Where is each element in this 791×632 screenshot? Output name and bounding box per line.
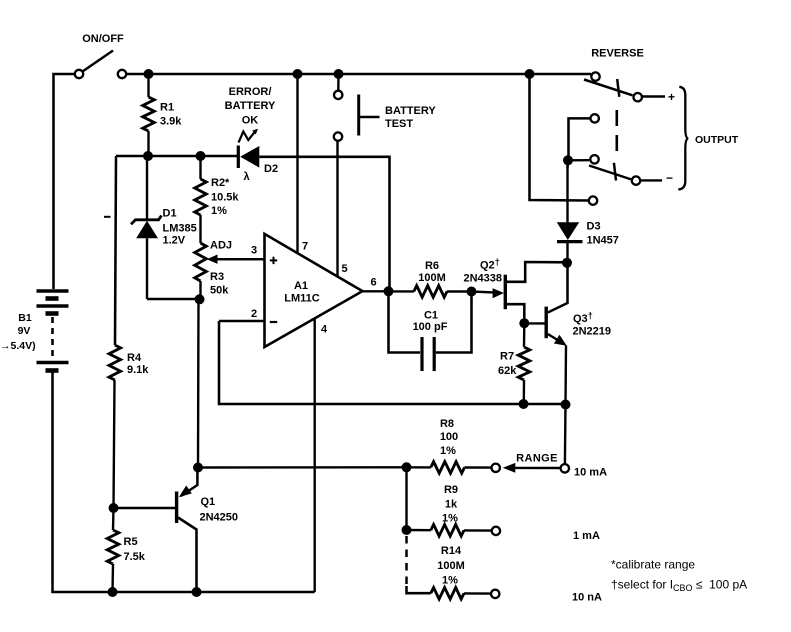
svg-text:6: 6 bbox=[370, 277, 376, 289]
zener D1 bbox=[146, 156, 148, 220]
pole2 upper terminal bbox=[591, 114, 599, 122]
svg-text:100M: 100M bbox=[418, 272, 446, 284]
capacitor C1 left wire bbox=[389, 291, 421, 352]
svg-text:1%: 1% bbox=[440, 445, 456, 457]
svg-text:ERROR/: ERROR/ bbox=[229, 86, 272, 98]
node reverse pole2 bbox=[563, 155, 573, 165]
transistor Q1 base bar bbox=[175, 492, 178, 524]
svg-text:Q1: Q1 bbox=[201, 496, 216, 508]
svg-text:100 pF: 100 pF bbox=[413, 321, 448, 333]
R8 terminal bbox=[492, 464, 500, 472]
wire D1 bottom to R3 node bbox=[147, 298, 199, 300]
pole2 common terminal bbox=[590, 155, 598, 163]
svg-text:ON/OFF: ON/OFF bbox=[82, 33, 124, 45]
pole2 common wire bbox=[568, 159, 589, 162]
LED cathode rail bbox=[116, 155, 237, 158]
svg-text:9V: 9V bbox=[18, 325, 31, 337]
node D3 bottom bbox=[562, 258, 572, 268]
svg-text:B1: B1 bbox=[18, 312, 32, 324]
pole1 output wire bbox=[642, 95, 665, 97]
resistor R1 bbox=[147, 74, 149, 97]
R14 terminal bbox=[491, 590, 499, 598]
dashed wire R9 to R14 bbox=[405, 536, 408, 586]
pole2 output wire bbox=[640, 179, 662, 181]
svg-text:C1: C1 bbox=[424, 310, 438, 322]
wire D3 anode bbox=[566, 160, 569, 168]
resistor R14 bbox=[407, 586, 431, 593]
LED D2 cathode bar bbox=[237, 146, 240, 169]
pin 7 wire bbox=[296, 74, 298, 253]
pole1 arm bbox=[584, 80, 633, 96]
node Q1 emitter junction bbox=[193, 463, 203, 473]
capacitor C1 right wire bbox=[436, 292, 472, 353]
switch S1 arm bbox=[83, 51, 114, 72]
svg-text:62k: 62k bbox=[498, 365, 517, 377]
JFET Q2 channel bar bbox=[504, 275, 507, 310]
battery test actuator bbox=[357, 95, 360, 136]
svg-text:BATTERY: BATTERY bbox=[225, 100, 276, 112]
svg-text:Q3†: Q3† bbox=[573, 311, 593, 326]
potentiometer R3 bbox=[195, 243, 207, 281]
pole2 throw terminal bbox=[632, 176, 640, 184]
battery test upper terminal bbox=[334, 91, 342, 99]
wire R4 to Q1 base node bbox=[114, 380, 115, 508]
node battery-test branch bbox=[334, 69, 344, 79]
svg-text:D3: D3 bbox=[587, 221, 601, 233]
output brace bbox=[678, 87, 688, 190]
node reverse branch bbox=[525, 69, 535, 79]
svg-text:LM385: LM385 bbox=[163, 223, 197, 235]
svg-text:3: 3 bbox=[251, 245, 257, 257]
Q1 base wire bbox=[114, 507, 177, 509]
svg-text:D1: D1 bbox=[163, 208, 177, 220]
svg-text:REVERSE: REVERSE bbox=[591, 48, 644, 60]
Q2 source lead bbox=[505, 304, 524, 323]
Q3 base wire bbox=[524, 322, 546, 324]
svg-text:†select for ICBO ≤ 100 pA: †select for ICBO ≤ 100 pA bbox=[611, 578, 747, 594]
svg-text:BATTERY: BATTERY bbox=[385, 105, 436, 117]
battery B1 plates bbox=[37, 289, 69, 293]
Q1 collector bbox=[178, 518, 197, 593]
svg-text:2N4338: 2N4338 bbox=[464, 273, 503, 285]
svg-text:5: 5 bbox=[341, 263, 347, 275]
svg-text:R9: R9 bbox=[444, 484, 458, 496]
node output bbox=[384, 286, 394, 296]
svg-text:2N2219: 2N2219 bbox=[573, 326, 612, 338]
transistor Q3 base bar bbox=[545, 307, 548, 339]
resistor R7 bbox=[523, 324, 526, 348]
wire R3 node down to Q1 emitter node bbox=[197, 299, 200, 467]
node Q3 emitter rail bbox=[561, 400, 571, 410]
resistor R8 bbox=[407, 466, 431, 469]
svg-text:2: 2 bbox=[251, 308, 257, 320]
node D1 top bbox=[143, 151, 153, 161]
bottom ground rail bbox=[52, 591, 315, 594]
svg-text:9.1k: 9.1k bbox=[127, 364, 149, 376]
svg-text:RANGE: RANGE bbox=[516, 453, 558, 465]
svg-text:10.5k: 10.5k bbox=[211, 192, 239, 204]
node Q1 collector bottom bbox=[192, 587, 202, 597]
svg-text:ADJ: ADJ bbox=[210, 240, 232, 252]
svg-text:A1: A1 bbox=[294, 280, 308, 292]
R9 terminal bbox=[492, 527, 500, 535]
op-amp plus sign bbox=[270, 259, 277, 261]
top supply rail bbox=[146, 73, 591, 76]
Q3 emitter wire bbox=[564, 346, 567, 405]
svg-text:1 mA: 1 mA bbox=[573, 530, 600, 542]
svg-text:*calibrate range: *calibrate range bbox=[611, 558, 695, 572]
svg-text:R14: R14 bbox=[441, 545, 462, 557]
wire switch to battery bbox=[54, 74, 76, 289]
svg-text:R4: R4 bbox=[127, 352, 142, 364]
svg-text:7.5k: 7.5k bbox=[124, 551, 146, 563]
pin 5 wire bbox=[336, 141, 338, 277]
feedback wire bbox=[219, 321, 567, 404]
stray tick bbox=[104, 216, 111, 218]
svg-text:100M: 100M bbox=[437, 560, 465, 572]
JFET Q2 gate wire bbox=[472, 292, 497, 293]
reverse branch wire bbox=[530, 74, 589, 201]
resistor R6 bbox=[389, 290, 414, 292]
svg-text:R7: R7 bbox=[500, 351, 514, 363]
svg-text:OK: OK bbox=[242, 115, 259, 127]
terminal 10mA bbox=[561, 464, 569, 472]
Q2 drain lead bbox=[505, 262, 567, 282]
svg-text:4: 4 bbox=[321, 324, 328, 336]
svg-text:2N4250: 2N4250 bbox=[200, 512, 239, 524]
switch S1 left terminal bbox=[75, 70, 83, 78]
op-amp A1 triangle bbox=[265, 234, 363, 347]
wire left branch top bbox=[115, 156, 116, 345]
RANGE arrow bbox=[503, 463, 516, 473]
svg-text:TEST: TEST bbox=[385, 118, 413, 130]
svg-text:1k: 1k bbox=[445, 499, 458, 511]
LED D2 triangle bbox=[240, 146, 259, 168]
switch S1 right terminal bbox=[118, 70, 126, 78]
battery internal dashed wire bbox=[51, 317, 54, 357]
svg-text:R5: R5 bbox=[124, 536, 138, 548]
diode D3 bbox=[566, 164, 568, 222]
wire D2 anode to output node bbox=[259, 157, 389, 287]
svg-text:λ: λ bbox=[244, 171, 250, 183]
svg-text:R6: R6 bbox=[425, 260, 439, 272]
node R2 top bbox=[196, 151, 206, 161]
svg-text:Q2†: Q2† bbox=[480, 257, 500, 272]
node R9 left bbox=[402, 525, 412, 535]
battery test lower terminal bbox=[334, 132, 342, 140]
svg-text:1%: 1% bbox=[211, 205, 227, 217]
svg-text:1.2V: 1.2V bbox=[163, 235, 186, 247]
svg-text:→5.4V): →5.4V) bbox=[0, 340, 36, 352]
wire switch right lead bbox=[126, 73, 146, 76]
node pin7 branch bbox=[293, 69, 303, 79]
svg-text:LM11C: LM11C bbox=[284, 293, 320, 305]
pole2 arm bbox=[589, 166, 632, 180]
svg-text:OUTPUT: OUTPUT bbox=[695, 134, 739, 146]
svg-text:1%: 1% bbox=[442, 575, 458, 587]
Q1 emitter bbox=[181, 467, 197, 496]
node R8 left bbox=[402, 462, 412, 472]
svg-text:7: 7 bbox=[302, 241, 308, 253]
svg-text:3.9k: 3.9k bbox=[160, 116, 182, 128]
pole2 lower terminal bbox=[589, 196, 597, 204]
wire R8 node down bbox=[405, 467, 407, 530]
capacitor C1 plates bbox=[420, 337, 423, 371]
pole1 common terminal bbox=[591, 72, 599, 80]
wire battery negative to ground rail bbox=[51, 373, 54, 594]
Q3 emitter bbox=[548, 334, 560, 342]
pole1 throw terminal bbox=[634, 93, 642, 101]
svg-text:R1: R1 bbox=[160, 102, 174, 114]
resistor R2 bbox=[199, 156, 201, 179]
svg-text:R2*: R2* bbox=[211, 177, 230, 189]
node Q2 gate bbox=[467, 287, 477, 297]
node R5 bottom bbox=[108, 587, 118, 597]
resistor R4 bbox=[109, 345, 121, 380]
pin 3 wire bbox=[215, 258, 265, 260]
svg-text:10 mA: 10 mA bbox=[574, 467, 607, 479]
node R3 bottom bbox=[195, 294, 205, 304]
pin 6 output wire bbox=[363, 290, 389, 292]
wire R5 to ground rail bbox=[111, 564, 114, 592]
resistor R9 bbox=[407, 529, 431, 532]
svg-text:10 nA: 10 nA bbox=[572, 592, 602, 604]
R3 wiper arrow bbox=[215, 258, 265, 260]
node R1 top bbox=[144, 69, 154, 79]
LED D2 light arrows bbox=[239, 132, 255, 143]
summing row wire bbox=[198, 466, 407, 469]
linkage dashed bar bbox=[615, 110, 618, 156]
pin 4 wire bbox=[314, 319, 316, 592]
linkage tick lower bbox=[614, 163, 616, 181]
wire emitter node to 10mA bbox=[564, 405, 567, 465]
Q3 collector bbox=[548, 263, 568, 313]
wire base node to R5 bbox=[112, 508, 115, 530]
svg-text:R3: R3 bbox=[210, 271, 224, 283]
svg-text:D2: D2 bbox=[264, 163, 278, 175]
pin 2 wire bbox=[219, 320, 265, 322]
svg-text:1%: 1% bbox=[442, 513, 458, 525]
svg-text:100: 100 bbox=[440, 431, 458, 443]
svg-text:R8: R8 bbox=[440, 418, 454, 430]
op-amp minus sign bbox=[270, 321, 277, 323]
svg-text:50k: 50k bbox=[210, 285, 229, 297]
svg-text:−: − bbox=[666, 171, 673, 185]
svg-text:1N457: 1N457 bbox=[587, 235, 619, 247]
pole2 upper wire bbox=[569, 118, 591, 156]
svg-text:+: + bbox=[668, 90, 675, 104]
battery test stub bbox=[337, 74, 340, 91]
resistor R5 bbox=[107, 530, 119, 564]
node Q2 source Q3 base bbox=[519, 318, 529, 328]
node R7 bottom bbox=[519, 399, 529, 409]
node Q1 base junction bbox=[109, 503, 119, 513]
linkage tick upper bbox=[617, 79, 619, 97]
